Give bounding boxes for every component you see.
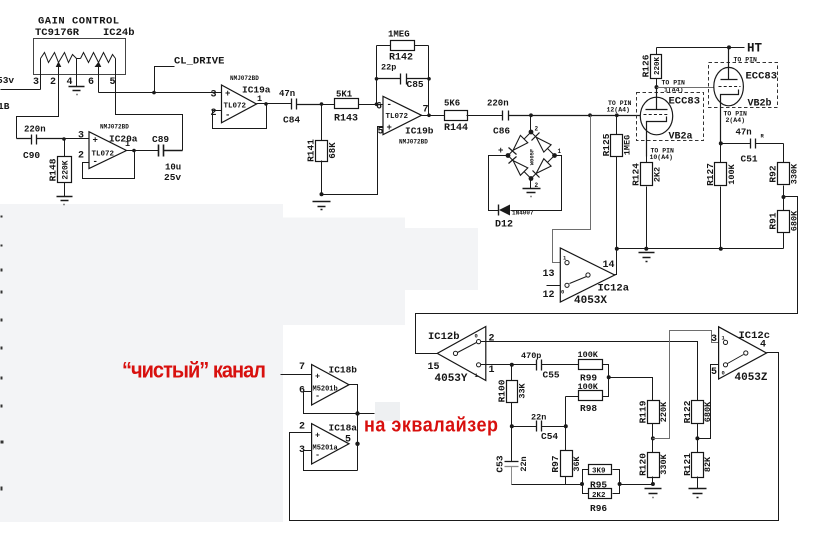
- svg-text:HT: HT: [747, 42, 763, 56]
- capacitor C89: [159, 145, 183, 157]
- svg-text:330K: 330K: [790, 163, 800, 184]
- junction main node IC12a branch: [588, 113, 592, 117]
- gray patch small near equalizer label: [375, 402, 400, 421]
- svg-text:R143: R143: [334, 114, 358, 125]
- junction rail IC12a/R125: [615, 247, 619, 251]
- svg-text:TO PIN: TO PIN: [662, 80, 686, 87]
- potentiometer P1 zigzag: [41, 53, 77, 63]
- svg-text:14: 14: [603, 260, 615, 271]
- ground under R141: [313, 202, 331, 210]
- gray patch middle: [281, 218, 405, 326]
- wire IC18a feedback: [304, 451, 358, 471]
- IC24b box: [34, 39, 126, 75]
- svg-text:C84: C84: [283, 115, 300, 126]
- svg-text:на эквалайзер: на эквалайзер: [364, 413, 498, 436]
- svg-text:M5201a: M5201a: [313, 445, 339, 453]
- svg-text:VB2a: VB2a: [669, 132, 693, 143]
- svg-text:68K: 68K: [328, 142, 338, 159]
- wire pot1 to pot2: [77, 58, 81, 60]
- svg-text:4: 4: [760, 340, 766, 351]
- resistor R143: [322, 90, 377, 125]
- svg-text:5: 5: [110, 77, 116, 88]
- svg-text:1B: 1B: [0, 101, 10, 112]
- svg-text:R119: R119: [637, 400, 648, 423]
- svg-text:53v: 53v: [0, 75, 14, 86]
- svg-text:220n: 220n: [24, 125, 46, 135]
- svg-text:36K: 36K: [572, 455, 582, 471]
- svg-text:5: 5: [345, 435, 351, 446]
- svg-text:220K: 220K: [61, 160, 70, 179]
- bridge BR3: [498, 126, 562, 190]
- gray patch right: [404, 228, 478, 290]
- wire pin6 of IC24b: [98, 71, 100, 93]
- resistor R97: [550, 427, 582, 485]
- svg-text:2(A4): 2(A4): [726, 117, 746, 124]
- junction IC19b output: [427, 114, 431, 118]
- svg-text:3: 3: [211, 90, 217, 101]
- capacitor C90: [17, 135, 65, 145]
- junction VB2a anode / R126 / VB2b grid: [655, 85, 659, 89]
- svg-text:10(A4): 10(A4): [650, 154, 673, 161]
- svg-text:2: 2: [299, 422, 305, 433]
- svg-text:GAIN CONTROL: GAIN CONTROL: [38, 16, 120, 28]
- ground under R148: [57, 197, 73, 205]
- svg-text:100K: 100K: [578, 350, 599, 360]
- wire IC12a pin12 stub: [547, 285, 561, 287]
- svg-text:100K: 100K: [727, 163, 737, 184]
- capacitor C53: [494, 427, 529, 485]
- wire R95 node to R120: [620, 484, 653, 486]
- svg-text:7: 7: [423, 105, 429, 116]
- potentiometer P1 wiper arrow: [57, 63, 61, 71]
- junction IC18b output: [355, 411, 359, 415]
- op-amp IC19a: [211, 75, 271, 123]
- svg-text:6: 6: [88, 77, 94, 88]
- svg-text:100K: 100K: [578, 382, 599, 392]
- capacitor C54: [512, 413, 566, 443]
- resistor R92: [768, 144, 800, 197]
- junction R95/R96 left: [580, 482, 584, 486]
- wire clean channel input: [281, 374, 312, 376]
- svg-text:470p: 470p: [521, 351, 541, 361]
- svg-text:1: 1: [125, 139, 130, 149]
- wire divider to lower section: [416, 197, 798, 354]
- wire pin3 of IC24b: [40, 59, 42, 90]
- svg-text:+: +: [387, 123, 392, 133]
- svg-text:15: 15: [428, 362, 440, 373]
- ground under R121: [689, 489, 707, 498]
- svg-text:C53: C53: [494, 455, 505, 472]
- svg-text:NMJ072BD: NMJ072BD: [100, 124, 129, 131]
- junction main node R125: [615, 113, 619, 117]
- svg-text:ECC83: ECC83: [746, 71, 778, 83]
- junction C85 left: [375, 77, 379, 81]
- wire C85 left branch: [376, 46, 378, 105]
- resistor R127: [705, 144, 737, 249]
- svg-text:5K1: 5K1: [336, 90, 353, 100]
- svg-text:R98: R98: [580, 403, 597, 414]
- wire C53 to R95 node: [512, 484, 583, 486]
- svg-text:C86: C86: [493, 126, 510, 137]
- svg-text:4053Y: 4053Y: [435, 373, 468, 385]
- svg-text:4053X: 4053X: [574, 295, 607, 307]
- svg-text:D12: D12: [495, 220, 513, 231]
- wire pin2 of IC24b to C90: [17, 71, 59, 139]
- svg-text:3: 3: [711, 334, 717, 345]
- svg-text:R148: R148: [48, 158, 59, 181]
- svg-text:2: 2: [50, 77, 56, 88]
- junction rail R124: [644, 247, 648, 251]
- svg-text:R120: R120: [637, 453, 648, 476]
- svg-text:R124: R124: [631, 163, 642, 186]
- wire ground rail to IC19b +input: [322, 127, 383, 195]
- junction HT / VB2b anode: [727, 45, 731, 49]
- svg-text:2K2: 2K2: [592, 492, 606, 500]
- resistor R124: [631, 157, 663, 249]
- junction IC18a output: [355, 442, 359, 446]
- svg-text:ECC83: ECC83: [669, 96, 701, 108]
- svg-text:7: 7: [299, 362, 305, 373]
- wire IC20a feedback loop: [83, 151, 135, 179]
- svg-text:IC19b: IC19b: [405, 126, 434, 137]
- wire IC12a output pin14: [615, 249, 617, 275]
- wire IC18b output bus: [349, 385, 358, 471]
- svg-text:2: 2: [535, 126, 539, 133]
- wire IC19a output: [257, 103, 292, 105]
- wire IC12c output loop to IC18a input: [290, 353, 779, 521]
- resistor R148: [48, 139, 72, 197]
- op-amp IC18b: [299, 362, 357, 405]
- svg-text:1MEG: 1MEG: [623, 135, 633, 155]
- svg-text:TC9176R: TC9176R: [35, 27, 80, 39]
- junction R120 bottom: [651, 482, 655, 486]
- svg-text:1MEG: 1MEG: [388, 30, 410, 40]
- wire pin5 of IC24b to C89 right: [116, 59, 183, 151]
- svg-text:C51: C51: [741, 154, 758, 165]
- resistor R126: [641, 48, 663, 88]
- wire HT rail: [657, 47, 745, 49]
- wire main node to IC12a pin13: [553, 116, 591, 263]
- svg-text:“чистый” канал: “чистый” канал: [122, 359, 266, 383]
- capacitor C55: [521, 351, 579, 381]
- wire C85 right branch: [428, 46, 430, 116]
- svg-text:R142: R142: [389, 53, 413, 64]
- capacitor C51: [721, 128, 784, 165]
- ground on rail: [639, 253, 655, 262]
- wire ground rail: [617, 248, 784, 250]
- junction R92/R91: [782, 195, 786, 199]
- wire VB2a anode to VB2b grid: [657, 87, 715, 89]
- wire IC18b feedback: [304, 392, 358, 414]
- resistor R125: [601, 116, 633, 249]
- wire IC12b pin1 output: [481, 364, 537, 366]
- svg-text:R141: R141: [305, 139, 316, 162]
- svg-text:IC20a: IC20a: [109, 134, 138, 145]
- wire IC20a output: [127, 150, 159, 152]
- svg-text:5K6: 5K6: [444, 99, 460, 109]
- resistor R141: [305, 105, 338, 195]
- svg-text:3: 3: [33, 77, 39, 88]
- svg-text:0: 0: [475, 333, 478, 340]
- svg-text:IC24b: IC24b: [103, 27, 135, 39]
- svg-text:3: 3: [78, 131, 84, 142]
- capacitor C84: [292, 99, 322, 110]
- svg-text:NMJ072BD: NMJ072BD: [230, 75, 259, 82]
- label TO PIN 10(A4): [650, 148, 675, 162]
- svg-text:330K: 330K: [659, 453, 669, 474]
- wire IC20a +input: [65, 138, 89, 140]
- svg-text:3K9: 3K9: [592, 468, 606, 476]
- gray patch left: [0, 204, 283, 522]
- capacitor C86: [503, 111, 643, 121]
- capacitor C85: [377, 74, 429, 85]
- wire IC19b output: [422, 115, 445, 117]
- junction C84/R143/R141: [320, 102, 324, 106]
- svg-text:TL072: TL072: [386, 113, 409, 121]
- wire R98 left to C54 node: [565, 397, 567, 427]
- svg-text:R96: R96: [590, 503, 607, 514]
- junction pin1/R100: [510, 363, 514, 367]
- junction rail R127: [719, 247, 723, 251]
- resistor R91: [768, 197, 800, 249]
- svg-text:R97: R97: [550, 455, 561, 472]
- junction IC19a output: [264, 102, 268, 106]
- op-amp IC18a: [299, 422, 357, 465]
- svg-text:1N4007: 1N4007: [512, 210, 534, 217]
- analog switch IC12a: [543, 248, 630, 307]
- junction R141 bottom: [320, 192, 324, 196]
- svg-text:2: 2: [489, 334, 495, 345]
- ground under BR3: [523, 179, 541, 197]
- resistor R98: [566, 378, 609, 415]
- svg-text:R92: R92: [768, 165, 779, 182]
- resistor R99: [578, 350, 609, 384]
- svg-text:NMJ072BD: NMJ072BD: [399, 139, 428, 146]
- resistor R96: [583, 485, 620, 515]
- tube VB2a: [637, 88, 704, 157]
- junction R119/R120: [651, 436, 655, 440]
- svg-text:R127: R127: [705, 163, 716, 186]
- op-amp IC20a: [78, 124, 138, 169]
- potentiometer P2 wiper arrow: [96, 63, 101, 71]
- svg-text:220K: 220K: [659, 401, 669, 422]
- svg-text:C54: C54: [541, 431, 558, 442]
- svg-text:R144: R144: [444, 123, 468, 134]
- diode D12: [489, 156, 562, 231]
- svg-text:13: 13: [543, 269, 555, 280]
- ground under pin4: [69, 87, 85, 95]
- svg-text:IC12b: IC12b: [428, 331, 460, 343]
- svg-text:R125: R125: [601, 133, 612, 156]
- svg-text:-: -: [387, 100, 392, 110]
- wire IC12b pin2 output to R122: [481, 342, 698, 401]
- resistor R121: [682, 439, 713, 489]
- wire R99/R98 to R119: [609, 378, 653, 401]
- svg-text:0: 0: [722, 370, 725, 377]
- wire BR3 top: [530, 116, 532, 133]
- svg-text:2: 2: [78, 151, 84, 162]
- ground under R120: [645, 489, 662, 498]
- junction node C90/R148/IC20a: [62, 137, 66, 141]
- svg-text:TL072: TL072: [224, 103, 247, 111]
- label TO PIN 2(A4): [724, 111, 748, 125]
- svg-text:10u: 10u: [165, 163, 181, 173]
- resistor R119: [637, 400, 669, 438]
- svg-text:680K: 680K: [703, 401, 713, 422]
- wire pin4 of IC24b to ground: [76, 59, 78, 87]
- op-amp IC19b: [376, 96, 434, 145]
- junction R122/R121: [695, 436, 699, 440]
- svg-text:4: 4: [67, 77, 73, 88]
- resistor R144: [444, 99, 503, 135]
- svg-text:+: +: [93, 136, 98, 146]
- junction VB2b cathode: [719, 141, 723, 145]
- svg-text:+: +: [315, 431, 320, 441]
- svg-text:4053Z: 4053Z: [735, 372, 768, 384]
- wire to equalizer: [358, 413, 375, 415]
- resistor R95: [583, 465, 620, 491]
- svg-text:25v: 25v: [164, 172, 181, 183]
- svg-text:0: 0: [561, 289, 564, 296]
- junction IC20a output: [132, 149, 136, 153]
- svg-text:VB2b: VB2b: [748, 98, 772, 110]
- svg-text:C90: C90: [23, 150, 40, 161]
- junction C54 left: [510, 424, 514, 428]
- svg-text:1: 1: [489, 365, 495, 376]
- svg-text:1: 1: [257, 94, 262, 104]
- wire IC19a feedback loop: [213, 104, 267, 129]
- wire IC19b -input stub: [377, 104, 383, 106]
- svg-text:M5201b: M5201b: [313, 386, 338, 394]
- svg-text:33K: 33K: [517, 382, 527, 398]
- svg-text:+: +: [315, 372, 320, 382]
- svg-text:12: 12: [543, 290, 555, 301]
- svg-text:C85: C85: [407, 79, 424, 90]
- wire R122/R121 node to IC12c pin5: [698, 365, 719, 439]
- resistor R120: [637, 439, 669, 485]
- resistor R142: [377, 30, 429, 64]
- wire -53v feed: [1, 89, 41, 91]
- label TO PIN 12(A4): [607, 100, 632, 114]
- svg-text:R121: R121: [682, 453, 693, 476]
- svg-text:220K: 220K: [654, 57, 662, 76]
- svg-text:CL_DRIVE: CL_DRIVE: [174, 56, 224, 68]
- svg-text:+: +: [225, 89, 230, 99]
- svg-text:47n: 47n: [736, 128, 752, 138]
- label TO PIN 1(A4): [662, 80, 686, 94]
- svg-text:C89: C89: [152, 134, 169, 145]
- svg-text:R126: R126: [641, 54, 652, 77]
- svg-text:C55: C55: [543, 370, 560, 381]
- svg-text:IC18b: IC18b: [329, 365, 358, 376]
- svg-text:TL072: TL072: [92, 151, 115, 159]
- junction IC19b -input: [375, 102, 379, 106]
- svg-text:47n: 47n: [279, 89, 295, 99]
- svg-text:IC18a: IC18a: [329, 423, 358, 434]
- junction R99/R98: [607, 375, 611, 379]
- junction C85 right: [427, 77, 431, 81]
- svg-text:2K2: 2K2: [653, 167, 663, 182]
- svg-text:12(A4): 12(A4): [607, 107, 630, 114]
- svg-text:5: 5: [711, 367, 717, 378]
- analog switch IC12c: [711, 327, 770, 384]
- svg-text:22n: 22n: [531, 413, 546, 423]
- svg-text:R91: R91: [768, 212, 779, 229]
- svg-text:5: 5: [378, 127, 384, 138]
- left edge fragments: [1, 216, 4, 491]
- analog switch IC12b: [428, 327, 495, 386]
- resistor R122: [682, 400, 713, 438]
- junction R95/R96 right: [618, 482, 622, 486]
- svg-text:-: -: [225, 111, 230, 121]
- svg-text:22n: 22n: [519, 456, 529, 471]
- resistor R100: [496, 365, 527, 427]
- potentiometer P2 zigzag: [81, 53, 116, 63]
- node CL_DRIVE: [152, 56, 224, 95]
- svg-text:22p: 22p: [381, 63, 396, 73]
- svg-text:220n: 220n: [487, 99, 509, 109]
- svg-text:82K: 82K: [703, 456, 713, 472]
- junction main node BR3: [529, 113, 533, 117]
- svg-text:-: -: [93, 157, 98, 167]
- svg-text:+: +: [498, 146, 503, 156]
- wire R119/R120 node to IC12c pin3: [653, 331, 719, 439]
- svg-text:W005F: W005F: [529, 149, 536, 166]
- tube VB2b: [709, 48, 778, 144]
- svg-text:1: 1: [558, 148, 562, 155]
- svg-text:R100: R100: [496, 379, 507, 402]
- wire IC24b pin6 to IC19a input: [99, 92, 222, 94]
- svg-text:IC12a: IC12a: [598, 283, 630, 295]
- junction C54 right: [564, 424, 568, 428]
- svg-text:2: 2: [211, 108, 217, 119]
- svg-text:R122: R122: [682, 400, 693, 423]
